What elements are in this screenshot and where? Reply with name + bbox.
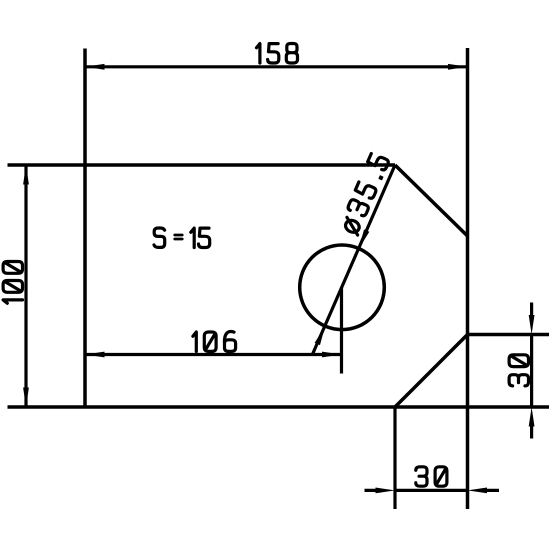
arrowhead 106 left [85, 352, 105, 358]
part left edge with top extension line [83, 49, 87, 408]
part right edge with top and bottom extension lines [466, 48, 470, 509]
arrowhead dia lower (points up-right at circle) [315, 325, 328, 345]
top-right chamfer edge [395, 165, 468, 236]
arrowhead 100 bottom [23, 388, 29, 408]
arrowhead 106 right [322, 352, 342, 358]
dimension line bottom 30 with outside tails [365, 489, 500, 492]
dimension text 30 right (rotated) [509, 355, 528, 386]
arrowhead right-30 top (points down) [529, 315, 535, 335]
hole diameter text Ø35.5 (rotated along leader) [339, 153, 390, 235]
part top edge with left extension line [8, 163, 396, 167]
dimension line 100 [24, 165, 27, 407]
hole circle [300, 245, 385, 330]
dimension line 158 [85, 65, 468, 68]
arrowhead 158 left [85, 64, 105, 70]
dimension line right 30 with outside tails [530, 303, 533, 439]
part bottom edge with left and right extension lines [8, 405, 550, 409]
dimension line 106 [85, 353, 342, 356]
chamfer-top extension line to right edge of sheet [468, 333, 550, 337]
diameter leader line for hole [312, 165, 395, 355]
arrowhead dia upper (points down-left at circle) [356, 229, 369, 249]
arrowhead 158 right [448, 64, 468, 70]
thickness note S = 15 [154, 228, 210, 248]
arrowhead 100 top [23, 165, 29, 185]
arrowhead right-30 bottom (points up) [529, 407, 535, 427]
dimension text 158 [257, 44, 298, 64]
extension line from hole centre down [340, 287, 343, 373]
dimension text 100 (rotated) [3, 262, 22, 304]
arrowhead bottom-30 left (points right) [376, 488, 396, 494]
arrowhead bottom-30 right (points left) [468, 488, 488, 494]
bottom-right chamfer edge [395, 335, 468, 408]
dimension text 106 [193, 332, 236, 352]
dimension text 30 bottom [416, 467, 447, 486]
extension line left of bottom 30 dim [393, 407, 396, 509]
